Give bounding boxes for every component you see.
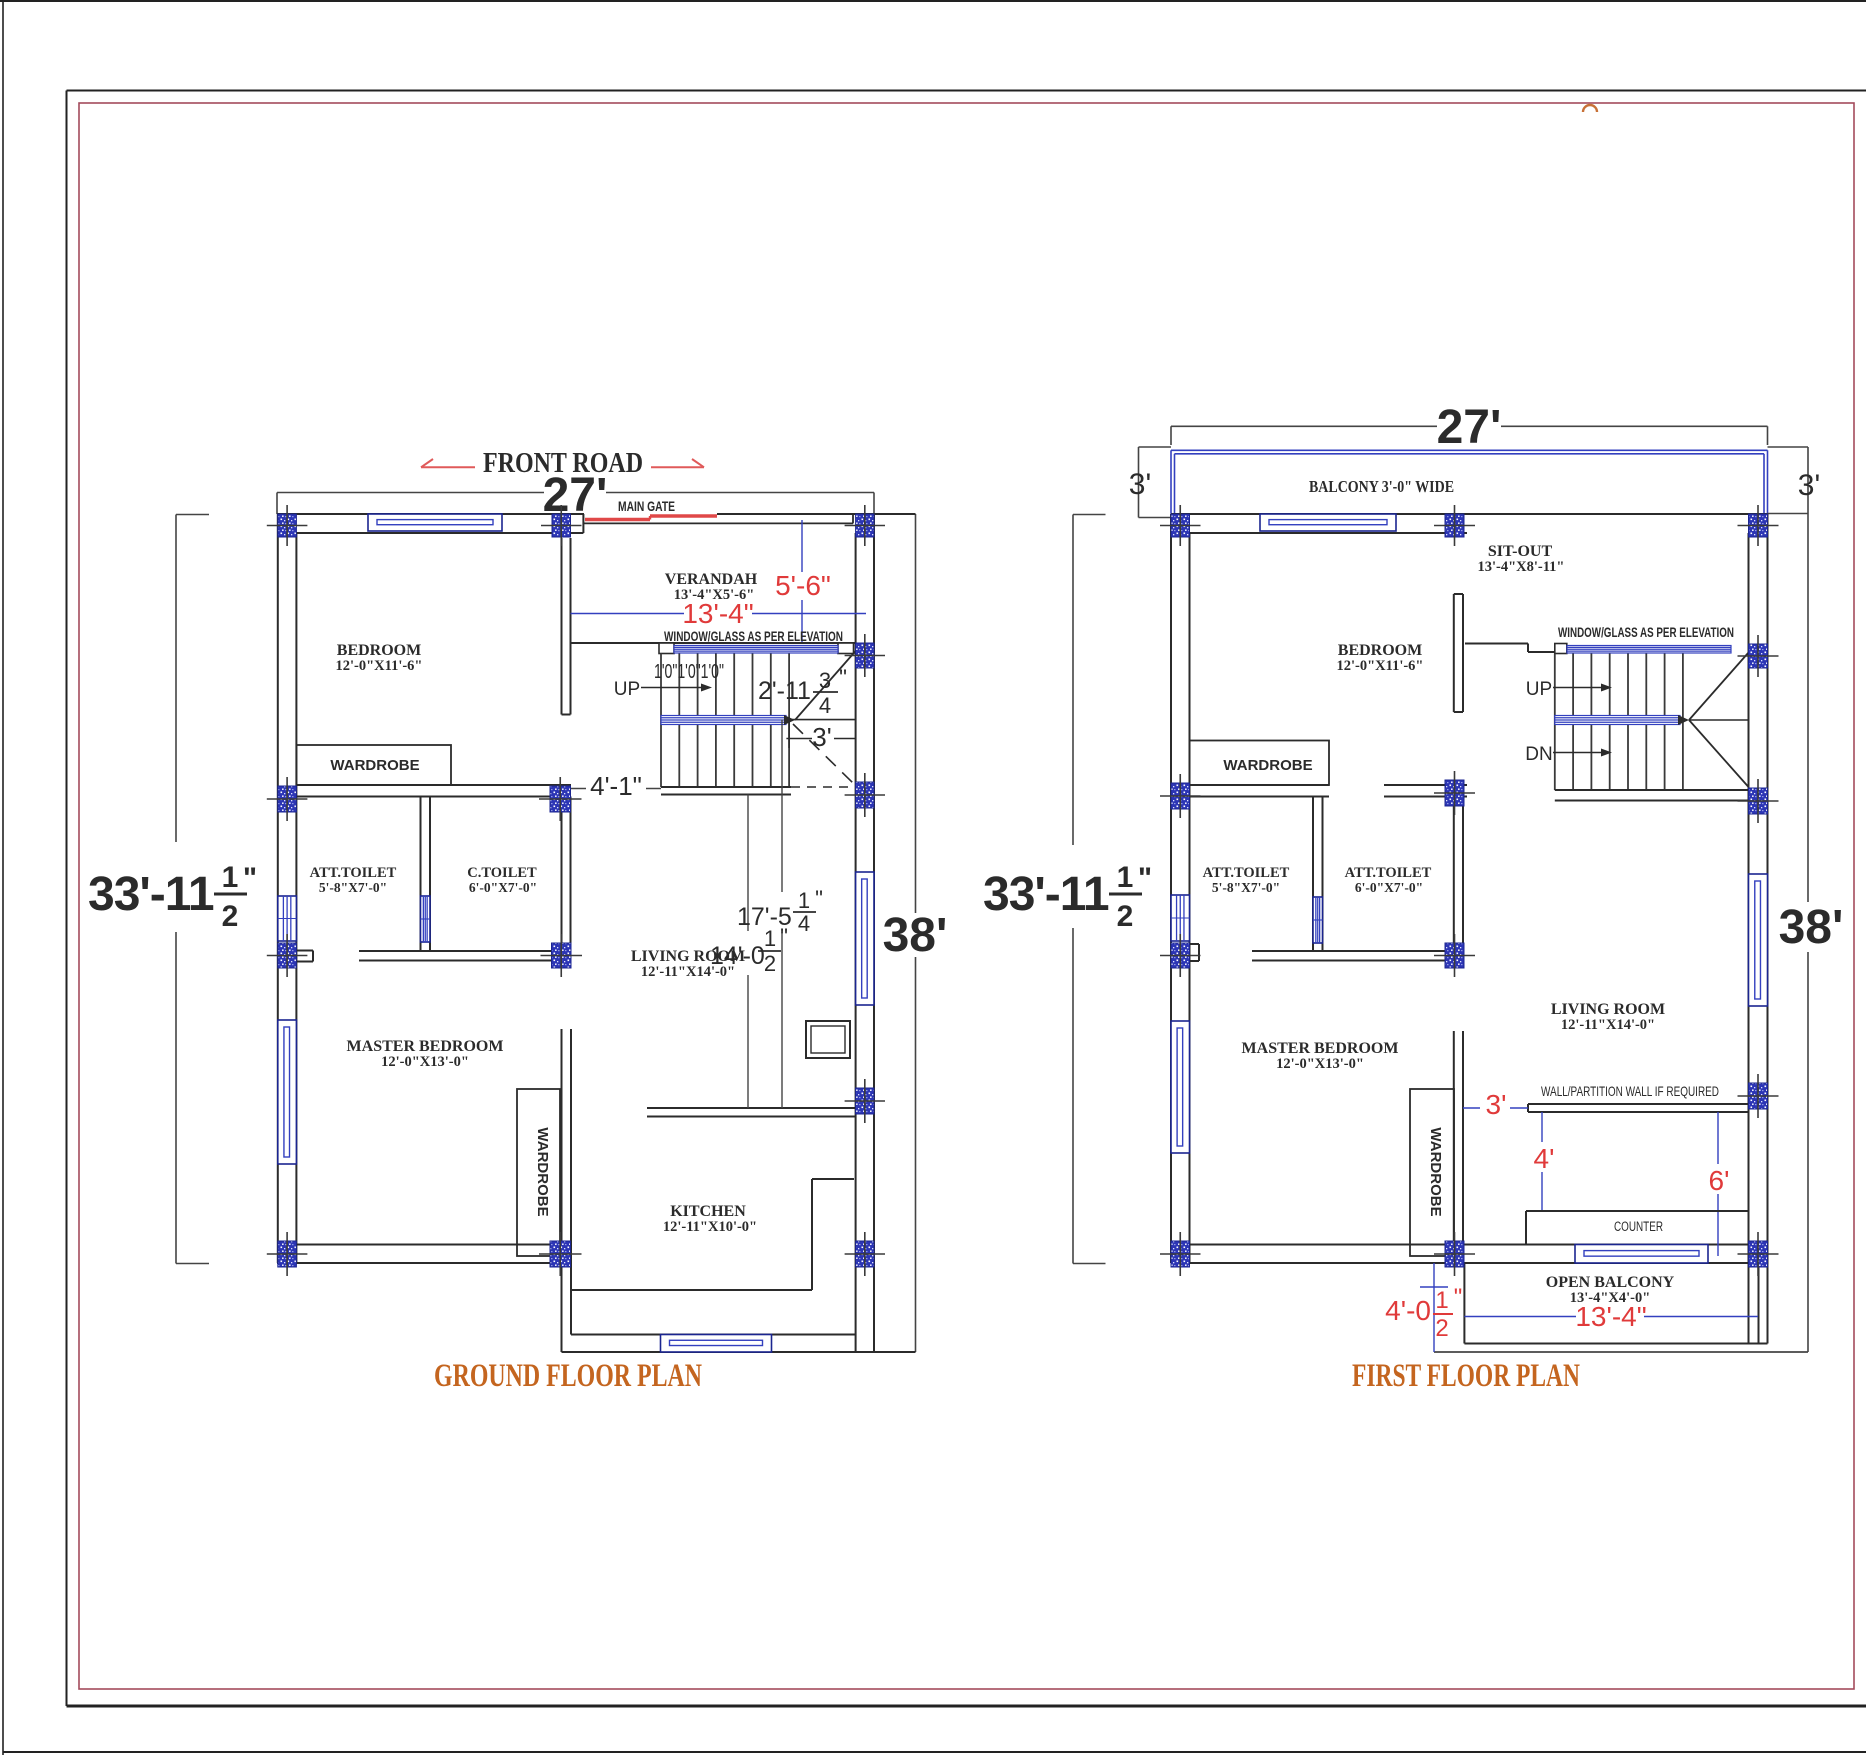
svg-text:ATT.TOILET: ATT.TOILET: [310, 865, 397, 881]
svg-text:13'-4": 13'-4": [1575, 1301, 1646, 1332]
svg-text:WINDOW/GLASS AS PER ELEVATION: WINDOW/GLASS AS PER ELEVATION: [1558, 624, 1734, 640]
svg-text:12'-0"X13'-0": 12'-0"X13'-0": [1276, 1056, 1364, 1072]
svg-text:FIRST FLOOR PLAN: FIRST FLOOR PLAN: [1352, 1358, 1580, 1394]
svg-text:27': 27': [1437, 401, 1502, 454]
svg-text:WARDROBE: WARDROBE: [1427, 1127, 1444, 1216]
svg-text:": ": [815, 886, 823, 911]
svg-text:14'-0: 14'-0: [710, 942, 765, 970]
svg-text:1'0"1'0"1'0": 1'0"1'0"1'0": [654, 661, 724, 683]
svg-text:DN: DN: [1525, 744, 1552, 765]
svg-text:BEDROOM: BEDROOM: [1338, 642, 1422, 659]
svg-text:12'-11"X14'-0": 12'-11"X14'-0": [1561, 1017, 1655, 1033]
svg-text:3': 3': [1129, 468, 1151, 501]
svg-text:SIT-OUT: SIT-OUT: [1488, 543, 1553, 560]
svg-text:WALL/PARTITION WALL IF REQUIRE: WALL/PARTITION WALL IF REQUIRED: [1541, 1083, 1719, 1099]
svg-text:ATT.TOILET: ATT.TOILET: [1203, 865, 1290, 881]
svg-text:4': 4': [1534, 1143, 1555, 1174]
svg-text:12'-11"X10'-0": 12'-11"X10'-0": [663, 1219, 757, 1235]
svg-text:UP: UP: [614, 679, 640, 700]
svg-text:4: 4: [819, 693, 831, 718]
svg-text:4'-1": 4'-1": [590, 771, 642, 801]
svg-text:13'-4"X8'-11": 13'-4"X8'-11": [1478, 559, 1565, 575]
svg-text:": ": [1138, 862, 1152, 895]
svg-text:VERANDAH: VERANDAH: [665, 571, 758, 588]
svg-text:UP: UP: [1526, 679, 1552, 700]
svg-text:": ": [780, 924, 788, 949]
svg-text:WARDROBE: WARDROBE: [534, 1127, 551, 1216]
svg-text:WINDOW/GLASS AS PER ELEVATION: WINDOW/GLASS AS PER ELEVATION: [664, 628, 843, 644]
svg-text:LIVING ROOM: LIVING ROOM: [1551, 1001, 1665, 1018]
svg-text:BALCONY 3'-0" WIDE: BALCONY 3'-0" WIDE: [1309, 477, 1454, 496]
svg-text:KITCHEN: KITCHEN: [670, 1203, 746, 1220]
svg-text:MAIN GATE: MAIN GATE: [618, 498, 675, 514]
svg-text:38': 38': [883, 909, 948, 962]
svg-text:WARDROBE: WARDROBE: [1223, 757, 1312, 774]
svg-text:12'-0"X11'-6": 12'-0"X11'-6": [1337, 658, 1424, 674]
svg-text:BEDROOM: BEDROOM: [337, 642, 421, 659]
svg-text:": ": [839, 665, 847, 690]
svg-text:GROUND FLOOR PLAN: GROUND FLOOR PLAN: [434, 1358, 702, 1394]
svg-text:2: 2: [764, 951, 776, 976]
svg-text:MASTER BEDROOM: MASTER BEDROOM: [1242, 1040, 1399, 1057]
svg-text:1: 1: [1117, 861, 1134, 894]
svg-text:4'-0: 4'-0: [1385, 1295, 1431, 1326]
svg-text:38': 38': [1779, 901, 1844, 954]
svg-text:12'-0"X13'-0": 12'-0"X13'-0": [381, 1054, 469, 1070]
svg-text:33'-11: 33'-11: [88, 868, 214, 921]
svg-text:3': 3': [1486, 1089, 1507, 1120]
svg-text:2: 2: [1435, 1315, 1448, 1342]
svg-text:MASTER BEDROOM: MASTER BEDROOM: [347, 1038, 504, 1055]
svg-text:COUNTER: COUNTER: [1614, 1219, 1663, 1234]
svg-text:6': 6': [1709, 1165, 1730, 1196]
svg-text:1: 1: [764, 926, 776, 951]
svg-text:WARDROBE: WARDROBE: [330, 757, 419, 774]
svg-text:3': 3': [1798, 469, 1820, 502]
svg-text:ATT.TOILET: ATT.TOILET: [1345, 865, 1432, 881]
svg-text:3': 3': [812, 722, 831, 752]
svg-text:3: 3: [819, 668, 831, 693]
svg-text:2: 2: [1117, 900, 1134, 933]
svg-text:5'-8"X7'-0": 5'-8"X7'-0": [319, 880, 387, 895]
svg-text:C.TOILET: C.TOILET: [467, 865, 537, 881]
svg-text:6'-0"X7'-0": 6'-0"X7'-0": [469, 880, 537, 895]
svg-text:1: 1: [798, 888, 810, 913]
svg-text:": ": [243, 862, 257, 895]
svg-text:6'-0"X7'-0": 6'-0"X7'-0": [1355, 880, 1423, 895]
svg-text:4: 4: [798, 911, 810, 936]
svg-text:5'-8"X7'-0": 5'-8"X7'-0": [1212, 880, 1280, 895]
svg-text:OPEN BALCONY: OPEN BALCONY: [1546, 1274, 1675, 1291]
svg-text:1: 1: [1435, 1287, 1448, 1314]
svg-text:2'-11: 2'-11: [758, 677, 811, 705]
svg-text:1: 1: [222, 861, 239, 894]
svg-text:5'-6": 5'-6": [775, 570, 831, 601]
svg-text:13'-4"X5'-6": 13'-4"X5'-6": [674, 587, 755, 603]
svg-text:": ": [1454, 1284, 1463, 1311]
svg-text:33'-11: 33'-11: [983, 868, 1109, 921]
svg-text:2: 2: [222, 900, 239, 933]
svg-text:12'-0"X11'-6": 12'-0"X11'-6": [336, 658, 423, 674]
